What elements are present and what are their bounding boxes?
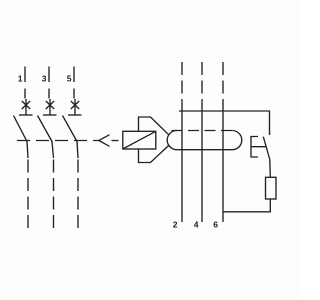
test resistor R <box>266 177 277 199</box>
phase line 2 (dashed upper) <box>181 62 183 100</box>
phase line 4 (dashed upper) <box>201 62 203 100</box>
test circuit top wire <box>179 111 270 135</box>
pole 3 fixed contact bar <box>68 114 82 116</box>
secondary winding leads (funnel to toroid) <box>139 117 170 135</box>
pole 3 moving blade <box>63 116 79 159</box>
pole 1 fixed contact bar <box>19 114 33 116</box>
pole 3 breaker contact X <box>71 99 79 115</box>
svg-text:3: 3 <box>42 74 47 84</box>
test contact blade <box>263 137 270 160</box>
pole 2 fixed contact bar <box>43 114 57 116</box>
svg-text:1: 1 <box>18 74 23 84</box>
actuator arrowhead <box>99 135 110 147</box>
pole 1 breaker contact X <box>22 99 30 115</box>
toroid core top edge (dashed) <box>172 130 233 132</box>
pole 1 moving blade <box>14 116 29 159</box>
test button actuator (E shape) <box>251 137 266 158</box>
pole 2 breaker contact X <box>46 99 54 115</box>
pole 3 bottom wire (dashed) <box>77 160 79 232</box>
pole 3 top wire (dashed terminal lead) <box>73 67 75 99</box>
wire resistor to line 6 <box>223 199 270 212</box>
phase line 6 (solid) <box>222 100 224 223</box>
phase line 2 (solid) <box>181 100 183 223</box>
trip relay K1 (box with diagonal) <box>123 131 156 149</box>
linkage dash to trip relay <box>112 140 119 142</box>
phase line 4 (solid) <box>201 100 203 223</box>
pole 1 top wire (dashed terminal lead) <box>24 67 26 99</box>
pole 2 top wire (dashed terminal lead) <box>48 67 50 99</box>
phase line 6 (dashed upper) <box>222 62 224 100</box>
wire blade to resistor <box>269 160 272 178</box>
toroid core W1 (capsule, solid caps and bottom) <box>167 131 242 150</box>
pole 2 moving blade <box>38 116 54 159</box>
mechanical linkage (dashed) <box>17 140 99 142</box>
svg-text:5: 5 <box>67 74 72 84</box>
pole 2 bottom wire (dashed) <box>53 160 55 232</box>
pole 1 bottom wire (dashed) <box>27 160 29 232</box>
svg-text:2: 2 <box>173 220 178 230</box>
svg-text:6: 6 <box>213 220 218 230</box>
svg-text:4: 4 <box>194 220 199 230</box>
